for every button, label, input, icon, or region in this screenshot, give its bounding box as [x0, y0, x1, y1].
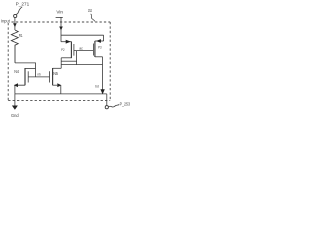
leader squiggle top callout	[91, 14, 96, 21]
net label ac	[79, 46, 83, 50]
leader squiggle to input node	[16, 7, 22, 15]
N5 source stub	[53, 84, 58, 86]
Vin lead bar	[56, 16, 63, 18]
N5 source drop	[60, 86, 62, 94]
svg-text:nb: nb	[37, 72, 40, 76]
svg-text:P2: P2	[61, 47, 65, 52]
label bd	[95, 84, 99, 89]
P2 gate-drain tie horizontal	[61, 60, 76, 62]
P2 gate bar	[73, 44, 75, 56]
svg-text:Vin: Vin	[56, 10, 63, 15]
svg-text:N5: N5	[53, 71, 58, 76]
input node terminal circle	[14, 14, 17, 17]
reference numeral P_271 (top-left callout)	[16, 2, 30, 7]
P3 source drop from rail	[103, 35, 105, 41]
wire: N4 drain stub	[25, 67, 36, 69]
svg-text:252: 252	[88, 8, 92, 13]
label N4	[14, 69, 19, 74]
leader squiggle bottom-right	[109, 105, 120, 108]
reference numeral P_253 (bottom-right callout)	[120, 102, 131, 107]
wire: Vin down to top rail and P2 source	[60, 17, 62, 41]
bottom rail (sources)	[15, 93, 107, 95]
svg-text:ac: ac	[79, 46, 83, 50]
svg-text:bd: bd	[95, 84, 99, 89]
svg-text:R1: R1	[19, 33, 23, 38]
N5 channel bar	[52, 68, 54, 85]
N5 gate bar	[49, 71, 51, 82]
label P2	[61, 47, 65, 52]
P3 drain stub	[95, 56, 103, 58]
N4 gate bar	[27, 71, 29, 82]
bd branch: P3 drain down to rail	[102, 57, 104, 90]
node wire: N5/P2 drain node to P3 drain (long horizontal)	[61, 64, 102, 66]
P2 source stub	[61, 41, 71, 43]
label R1	[19, 33, 23, 38]
N5 drain stub	[53, 67, 62, 69]
P2 drain stub	[61, 57, 71, 59]
top rail (P sources)	[61, 34, 104, 36]
svg-text:Input: Input	[1, 18, 11, 23]
arrowhead on Vin wire	[59, 27, 63, 31]
P2 source arrow (points toward channel)	[66, 40, 71, 44]
N4 source arrow	[14, 83, 18, 87]
wire: resistor bottom right then down to N4 gate tie	[15, 63, 36, 77]
dashed enclosure box	[8, 22, 110, 101]
svg-text:N4: N4	[14, 69, 19, 74]
label Gnd	[11, 113, 19, 118]
output terminal circle	[105, 106, 108, 109]
ground arrow	[12, 106, 18, 110]
Vin supply label	[56, 10, 63, 15]
net label nb	[37, 72, 40, 76]
ground stem through dashed box	[14, 94, 16, 106]
wire: input node down to resistor	[14, 18, 16, 30]
output terminal drop from rail	[106, 94, 108, 106]
bd current arrow	[100, 89, 104, 94]
label N5	[53, 71, 58, 76]
wire: P2 drain down to N5 drain	[60, 58, 62, 69]
label P3	[98, 45, 102, 50]
N4 channel bar	[24, 68, 26, 85]
P3 source arrow (points toward channel)	[96, 39, 101, 43]
P2 channel bar	[70, 42, 72, 59]
N4 source stub	[15, 85, 25, 94]
svg-text:P_253: P_253	[120, 102, 131, 107]
P3 source stub	[95, 40, 104, 42]
P gate wire (P2 gate to P3 gate)	[74, 50, 94, 52]
resistor R1	[11, 30, 18, 63]
svg-text:P_271: P_271	[16, 2, 30, 7]
P3 gate bar	[92, 44, 94, 56]
N gate wire (N4 gate to N5 gate)	[28, 76, 49, 78]
reference numeral 252 (top callout)	[88, 8, 92, 13]
Input label	[1, 18, 11, 23]
svg-text:P3: P3	[98, 45, 102, 50]
arrowhead on input wire (current direction)	[13, 23, 17, 27]
P3 channel bar	[94, 41, 96, 57]
N5 source arrow	[57, 83, 61, 87]
svg-text:Gnd: Gnd	[11, 113, 19, 118]
P gate tie drop	[76, 51, 78, 65]
